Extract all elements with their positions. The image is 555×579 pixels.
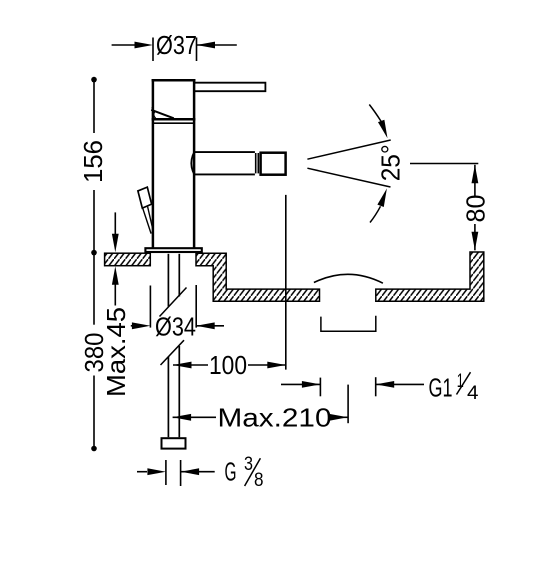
svg-text:G: G [225, 457, 237, 487]
svg-text:25°: 25° [376, 144, 406, 181]
svg-text:8: 8 [254, 470, 264, 491]
svg-text:4: 4 [467, 383, 479, 404]
svg-text:Max.45: Max.45 [101, 307, 131, 397]
svg-text:3: 3 [244, 454, 253, 475]
svg-text:80: 80 [461, 195, 491, 223]
svg-text:G1: G1 [429, 372, 453, 402]
svg-text:Ø34: Ø34 [155, 312, 196, 342]
svg-text:156: 156 [78, 140, 108, 183]
svg-text:Ø37: Ø37 [156, 30, 197, 60]
svg-text:100: 100 [209, 350, 247, 380]
svg-text:Max.210: Max.210 [218, 403, 332, 433]
